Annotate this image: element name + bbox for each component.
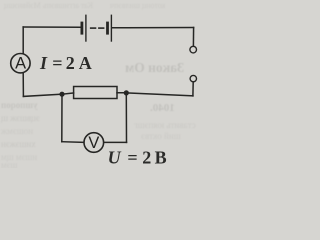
terminal X1 (upper open clamp) [190,46,197,53]
battery GB1 cell 2 long (positive) plate [110,15,112,41]
svg-text:1040.: 1040. [150,102,175,114]
wire: right resistor lead [117,92,126,94]
resistor R1 [74,87,117,99]
battery GB1 cell 1 short (negative) plate [81,23,84,33]
svg-text:=: = [127,147,137,167]
wire: right junction to bottom-right corner [126,93,193,96]
svg-text:A: A [15,55,26,73]
wire: right vertical up to lower terminal [192,82,194,96]
wire: top-right horizontal from battery to right corner [112,27,193,29]
svg-text:хишэжэн: хишэжэн [1,139,36,149]
svg-text:ший октвэ: ший октвэ [141,131,181,141]
svg-text:Кат аггишвэпъ Мэйвнэшц: Кат аггишвэпъ Мэйвнэшц [3,1,93,10]
wire: top-left horizontal from corner to battery [23,26,80,28]
battery GB1 cell 1 long (positive) plate [85,15,87,41]
svg-text:2: 2 [142,147,151,167]
wire: left resistor lead [62,93,74,94]
wire: ammeter bottom down to lower-left corner [22,74,24,97]
battery GB1 dash 1 [91,27,96,29]
faint page bleed-through background (decorative) [0,1,195,170]
battery GB1 dash 2 [99,27,104,29]
battery GB1 cell 2 short (negative) plate [106,23,109,33]
wire: voltmeter right side to corner [104,141,126,143]
svg-text:котонц шилвэпч: котонц шилвэпч [110,1,165,10]
svg-text:А: А [79,53,92,73]
svg-text:2: 2 [66,53,75,73]
wire: voltmeter branch, left vertical down from junction [61,94,63,142]
voltmeter PV1 circle [84,133,104,153]
svg-text:Закон Ом: Закон Ом [125,60,184,75]
node: left junction dot [59,92,64,97]
label I = 2 A [39,53,92,73]
wire: bottom of upper loop, corner to left junction [23,94,62,96]
svg-text:ставить юяпэшг: ставить юяпэшг [134,120,196,130]
svg-text:U: U [108,147,122,167]
wire: left vertical, top corner down to ammeter [22,27,24,53]
svg-text:I: I [39,53,48,73]
svg-text:ушпоqоп: ушпоqоп [1,100,37,110]
label U = 2 B [108,147,167,167]
terminal X2 (lower open clamp) [190,75,196,81]
svg-text:шэм: шэм [1,160,18,168]
svg-text:иошэмж: иошэмж [0,126,33,136]
battery GB1 (two cells with dashed middle) [82,15,112,41]
node: right junction dot [124,90,129,95]
svg-text:В: В [155,147,167,167]
wire: right vertical from upper terminal to top corner [192,28,194,47]
ammeter PA1 circle [11,54,30,73]
svg-text:=: = [52,53,62,73]
wire: voltmeter branch, lower-left horizontal to voltmeter [62,141,84,144]
svg-text:эцвшэж щ: эцвшэж щ [1,113,40,123]
svg-text:V: V [88,134,99,152]
wire: voltmeter branch, right vertical up to junction [125,93,127,142]
